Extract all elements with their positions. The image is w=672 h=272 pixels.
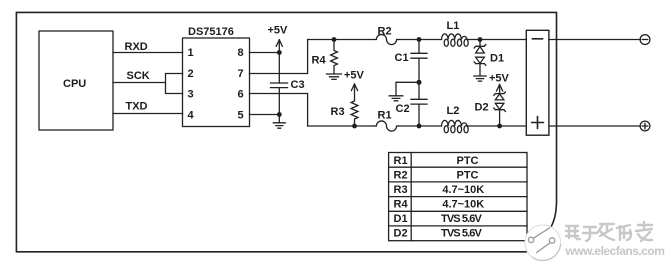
+5V supply arrow at C3 [268, 25, 289, 53]
svg-text:4.7~10K: 4.7~10K [442, 184, 484, 196]
TVS diode D2 [475, 92, 506, 126]
svg-text:R2: R2 [378, 26, 392, 38]
capacitor C1 [395, 40, 428, 83]
inductor L2 [442, 105, 469, 133]
svg-text:4.7~10K: 4.7~10K [442, 199, 484, 211]
+5V supply arrow at D2 [489, 73, 510, 94]
svg-text:R3: R3 [331, 106, 345, 118]
svg-text:L2: L2 [447, 105, 460, 117]
svg-text:C1: C1 [395, 52, 409, 64]
junction C1 top [417, 37, 422, 42]
ground below C3 [273, 115, 285, 129]
wire pin6 to node B [250, 94, 308, 127]
svg-text:TVS 5.6V: TVS 5.6V [441, 213, 482, 225]
svg-text:TVS 5.6V: TVS 5.6V [441, 228, 482, 240]
node B bottom rail [308, 125, 527, 127]
wire to plus terminal [549, 125, 641, 127]
output terminal minus [640, 35, 650, 45]
svg-text:R4: R4 [312, 55, 327, 67]
capacitor C3 [271, 53, 305, 115]
junction C1/C2 midpoint [417, 80, 422, 85]
table values column [441, 155, 484, 240]
+5V supply arrow at R3 [344, 70, 365, 91]
svg-text:5: 5 [238, 110, 244, 122]
svg-text:R3: R3 [394, 184, 408, 196]
svg-text:www.elecfans.com: www.elecfans.com [565, 244, 665, 258]
svg-text:R1: R1 [394, 155, 408, 167]
svg-text:+5V: +5V [344, 70, 365, 82]
terminal block [526, 30, 549, 135]
transceiver U1 DS75176 [183, 26, 250, 127]
svg-text:C2: C2 [396, 103, 410, 115]
svg-text:6: 6 [238, 89, 244, 101]
wire pin8 to +5V node [250, 52, 280, 54]
output terminal plus [640, 121, 650, 131]
svg-text:CPU: CPU [63, 78, 86, 90]
svg-text:R4: R4 [394, 199, 409, 211]
wire pin5 to ground [250, 114, 280, 116]
svg-text:SCK: SCK [127, 70, 150, 82]
svg-text:D1: D1 [490, 53, 504, 65]
svg-text:R2: R2 [394, 170, 408, 182]
ground at midpoint [389, 82, 419, 101]
svg-text:R1: R1 [378, 110, 392, 122]
svg-text:RXD: RXD [125, 41, 148, 53]
svg-text:3: 3 [188, 89, 194, 101]
svg-text:D1: D1 [394, 213, 408, 225]
node A top rail [308, 39, 527, 41]
svg-text:+5V: +5V [268, 25, 289, 37]
svg-text:2: 2 [188, 68, 194, 80]
svg-text:+5V: +5V [489, 73, 510, 85]
svg-text:L1: L1 [447, 20, 460, 32]
svg-text:7: 7 [238, 68, 244, 80]
wire TXD [113, 101, 183, 114]
wire SCK [113, 70, 183, 94]
PTC resistor R2 [375, 26, 399, 45]
inductor L1 [442, 20, 469, 46]
junction pin8/C3 [277, 50, 282, 55]
value table [389, 153, 527, 241]
capacitor C2 [396, 82, 428, 126]
wire to minus terminal [549, 39, 641, 41]
junction R3 [352, 124, 357, 129]
junction C2 bottom [417, 124, 422, 129]
junction D1 [478, 37, 483, 42]
PTC resistor R1 [375, 110, 399, 132]
svg-text:DS75176: DS75176 [188, 26, 234, 38]
CPU block [39, 31, 113, 130]
resistor R3 [331, 84, 358, 126]
svg-text:D2: D2 [394, 228, 408, 240]
ground below D1 [474, 76, 486, 81]
svg-text:1: 1 [188, 47, 194, 59]
junction R4 [332, 37, 337, 42]
wire RXD [113, 41, 183, 53]
resistor R4 [312, 40, 338, 74]
ground below R4 [327, 74, 342, 79]
watermark logo disc [525, 225, 561, 261]
wire pin7 to node A [250, 40, 308, 74]
svg-text:D2: D2 [475, 102, 489, 114]
svg-text:TXD: TXD [126, 101, 148, 113]
watermark Chinese text [566, 222, 652, 241]
svg-text:8: 8 [238, 47, 244, 59]
TVS diode D1 [474, 40, 504, 76]
svg-text:PTC: PTC [457, 155, 479, 167]
junction D2 [497, 124, 502, 129]
svg-text:C3: C3 [291, 79, 305, 91]
table labels column [394, 155, 409, 240]
junction pin5/C3 [277, 112, 282, 117]
svg-text:4: 4 [188, 110, 195, 122]
svg-text:PTC: PTC [457, 170, 479, 182]
